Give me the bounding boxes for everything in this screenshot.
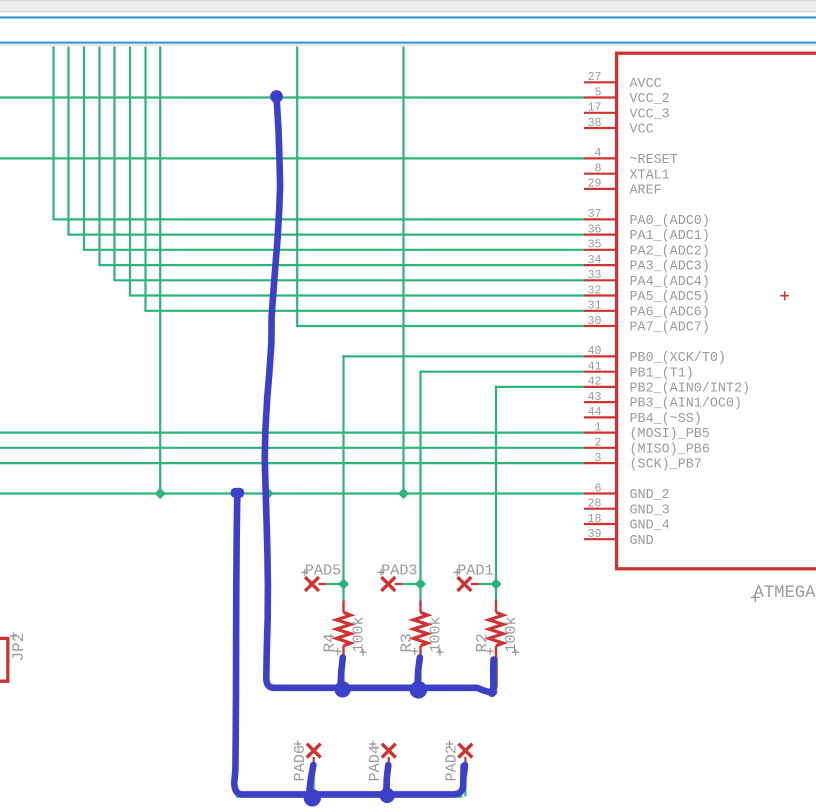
pin 38 VCC xyxy=(584,117,654,138)
node label ATMEGA16 xyxy=(751,584,816,603)
svg-text:2: 2 xyxy=(595,437,602,450)
wire net MOSI horizontal to pin 1 xyxy=(0,432,585,434)
pin 43 PB3_(AIN1/OC0) xyxy=(584,391,742,412)
pin 40 PB0_(XCK/T0) xyxy=(584,345,726,366)
pin 44 PB4_(~SS) xyxy=(584,406,702,427)
svg-text:100k: 100k xyxy=(503,616,520,652)
svg-text:PA1_(ADC1): PA1_(ADC1) xyxy=(630,229,710,244)
resistor R3 100k xyxy=(398,600,445,659)
wire net PB1 vertical to pad xyxy=(419,371,421,584)
svg-text:43: 43 xyxy=(588,391,602,404)
svg-text:3: 3 xyxy=(595,452,602,465)
node junction PAD5/R4 xyxy=(338,578,349,589)
pin 42 PB2_(AIN0/INT2) xyxy=(584,376,750,397)
pad PAD5 group xyxy=(301,562,343,591)
svg-text:17: 17 xyxy=(588,102,602,115)
svg-text:(SCK)_PB7: (SCK)_PB7 xyxy=(630,458,702,473)
node junction blue blob PAD6/rail xyxy=(304,789,321,806)
svg-text:GND_2: GND_2 xyxy=(630,488,670,503)
svg-text:34: 34 xyxy=(588,254,602,267)
wire net PA7 vertical xyxy=(296,47,298,327)
pin 3 (SCK)_PB7 xyxy=(584,452,702,473)
wire net PB2 vertical to pad xyxy=(495,386,497,584)
wire net PA6 vertical xyxy=(144,47,146,311)
pin 28 GND_3 xyxy=(584,498,670,519)
wire net stub into R4 top xyxy=(342,584,344,600)
wire blue stub resistor R4 bottom xyxy=(341,658,343,686)
svg-text:37: 37 xyxy=(588,208,602,221)
svg-text:29: 29 xyxy=(588,178,602,191)
wire blue thick from GND line down to bottom pad rail xyxy=(234,494,463,795)
svg-text:PAD2: PAD2 xyxy=(443,745,461,781)
svg-text:PB1_(T1): PB1_(T1) xyxy=(630,366,694,381)
svg-text:33: 33 xyxy=(588,269,602,282)
wire net PB2 horizontal to pin xyxy=(495,386,585,388)
pin 39 GND xyxy=(584,528,654,549)
wire blue stub pad PAD6 xyxy=(310,765,314,790)
node junction PAD3/R3 xyxy=(415,578,426,589)
resistor R2 100k xyxy=(473,600,520,694)
svg-text:PAD1: PAD1 xyxy=(457,562,493,580)
node junction blue blob R3/rail xyxy=(410,681,428,699)
svg-text:(MISO)_PB6: (MISO)_PB6 xyxy=(630,442,710,457)
pin 32 PA5_(ADC5) xyxy=(584,284,710,305)
wire net stub into R3 top xyxy=(419,584,421,600)
pin 31 PA6_(ADC6) xyxy=(584,300,710,321)
pin 36 PA1_(ADC1) xyxy=(584,223,710,244)
wire blue stub resistor R3 bottom xyxy=(418,658,420,685)
svg-text:PA4_(ADC4): PA4_(ADC4) xyxy=(630,275,710,290)
svg-text:32: 32 xyxy=(588,284,602,297)
wire green underlay under blue stub of R2 xyxy=(496,658,498,688)
wire net MISO horizontal to pin 2 xyxy=(0,447,585,449)
node junction blue blob PAD4/rail xyxy=(380,788,395,803)
wire top toolbar band xyxy=(0,0,816,11)
svg-text:PAD5: PAD5 xyxy=(305,562,341,580)
svg-text:38: 38 xyxy=(588,117,602,130)
pin 33 PA4_(ADC4) xyxy=(584,269,710,290)
svg-text:1: 1 xyxy=(595,421,602,434)
op-amp U1 ATMEGA16 chip body xyxy=(617,53,816,569)
svg-text:42: 42 xyxy=(588,376,602,389)
wire net PB1 horizontal to pin xyxy=(419,371,584,373)
svg-text:41: 41 xyxy=(588,361,602,374)
pad PAD4 group xyxy=(366,741,396,782)
svg-text:100k: 100k xyxy=(351,616,368,652)
pin 17 VCC_3 xyxy=(584,102,670,123)
svg-text:PB3_(AIN1/OC0): PB3_(AIN1/OC0) xyxy=(630,397,743,412)
wire frame line bottom xyxy=(0,42,816,44)
wire net GND vertical middle xyxy=(402,47,404,494)
wire net PA4 vertical xyxy=(113,47,115,281)
wire net PA1 horizontal to pin xyxy=(67,234,584,236)
svg-text:PAD3: PAD3 xyxy=(381,562,417,580)
node junction blue dot at VCC_2 line xyxy=(270,90,283,103)
svg-text:18: 18 xyxy=(588,513,602,526)
svg-text:PAD4: PAD4 xyxy=(366,745,384,781)
node junction blue blob R4/rail xyxy=(334,681,350,697)
connector JP2 xyxy=(0,632,28,681)
svg-text:(MOSI)_PB5: (MOSI)_PB5 xyxy=(630,427,710,442)
svg-text:PB4_(~SS): PB4_(~SS) xyxy=(630,412,702,427)
svg-text:30: 30 xyxy=(588,315,602,328)
svg-text:PA3_(ADC3): PA3_(ADC3) xyxy=(630,260,710,275)
wire net PA4 horizontal to pin xyxy=(113,279,584,281)
wire net GND horizontal to pin 6 xyxy=(0,492,585,494)
svg-text:~RESET: ~RESET xyxy=(630,153,678,168)
node junction blue blob at GND line xyxy=(231,488,245,498)
pin 27 AVCC xyxy=(584,71,662,92)
pin 41 PB1_(T1) xyxy=(584,361,694,382)
node junction blue knee at R2 xyxy=(488,688,497,697)
svg-text:PAD6: PAD6 xyxy=(291,745,309,781)
wire green underlay under blue wire left xyxy=(234,494,236,796)
wire net PA0 vertical xyxy=(52,47,54,220)
svg-text:VCC: VCC xyxy=(630,123,654,138)
pin 2 (MISO)_PB6 xyxy=(584,437,710,458)
wire net PA7 horizontal to pin 30 xyxy=(296,325,584,327)
wire net PA1 vertical xyxy=(67,47,69,235)
pin 30 PA7_(ADC7) xyxy=(584,315,710,336)
pad PAD2 group xyxy=(443,741,473,782)
pin 18 GND_4 xyxy=(584,513,670,534)
wire green underlay under blue stub of PAD6 xyxy=(313,766,315,797)
wire net PA5 vertical xyxy=(129,47,131,296)
svg-text:R4: R4 xyxy=(321,633,339,652)
wire net PB0 horizontal to pin xyxy=(342,355,584,357)
svg-text:XTAL1: XTAL1 xyxy=(630,168,670,183)
pad PAD3 group xyxy=(378,562,421,591)
node junction GND at left vertical xyxy=(155,488,166,499)
svg-text:R3: R3 xyxy=(398,633,416,652)
svg-text:6: 6 xyxy=(595,482,602,495)
wire green underlay under blue stub of PAD4 xyxy=(388,766,390,797)
node junction GND at blue wire crossing xyxy=(261,487,273,499)
svg-text:39: 39 xyxy=(588,528,602,541)
svg-text:PB2_(AIN0/INT2): PB2_(AIN0/INT2) xyxy=(630,382,751,397)
wire green underlay under blue wire middle xyxy=(266,620,268,687)
svg-text:36: 36 xyxy=(588,223,602,236)
wire net SCK horizontal to pin 3 xyxy=(0,462,585,464)
svg-text:PA2_(ADC2): PA2_(ADC2) xyxy=(630,244,710,259)
svg-text:28: 28 xyxy=(588,498,602,511)
svg-text:27: 27 xyxy=(588,71,602,84)
svg-text:GND_4: GND_4 xyxy=(630,519,670,534)
svg-text:4: 4 xyxy=(595,147,602,160)
svg-text:PA0_(ADC0): PA0_(ADC0) xyxy=(630,214,710,229)
wire green underlay under blue stub of PAD2 xyxy=(464,766,466,797)
node junction PAD1/R2 xyxy=(490,578,501,589)
pin 8 XTAL1 xyxy=(584,163,670,184)
svg-text:AVCC: AVCC xyxy=(630,77,662,92)
wire net PA2 horizontal to pin xyxy=(83,249,585,251)
node junction GND at middle vertical xyxy=(398,488,409,499)
wire frame line top xyxy=(0,16,816,18)
wire net VCC_2 horizontal to pin 5 xyxy=(0,96,585,98)
resistor R4 100k xyxy=(321,600,368,659)
wire blue thick from VCC_2 line down to resistor rail xyxy=(265,97,494,692)
pin 29 AREF xyxy=(584,178,662,199)
pin 4 ~RESET xyxy=(584,147,678,168)
svg-text:GND_3: GND_3 xyxy=(630,503,670,518)
svg-text:VCC_2: VCC_2 xyxy=(630,92,670,107)
svg-text:AREF: AREF xyxy=(630,184,662,199)
pin 1 (MOSI)_PB5 xyxy=(584,421,710,442)
svg-text:40: 40 xyxy=(588,345,602,358)
node chip origin cross xyxy=(780,291,789,300)
wire net PA3 horizontal to pin xyxy=(98,264,584,266)
wire green underlay under blue stub of R3 xyxy=(419,658,421,688)
wire blue stub pad PAD2 xyxy=(464,765,465,775)
svg-text:35: 35 xyxy=(588,239,602,252)
pin 6 GND_2 xyxy=(584,482,670,503)
svg-text:PA7_(ADC7): PA7_(ADC7) xyxy=(630,321,710,336)
pin 37 PA0_(ADC0) xyxy=(584,208,710,229)
wire blue stub pad PAD4 xyxy=(386,765,388,789)
wire net PA0 horizontal to pin xyxy=(52,218,584,220)
wire net GND vertical left xyxy=(159,47,161,494)
svg-text:8: 8 xyxy=(595,163,602,176)
svg-text:VCC_3: VCC_3 xyxy=(630,107,670,122)
svg-text:ATMEGA1: ATMEGA1 xyxy=(754,584,816,603)
pad PAD6 group xyxy=(291,741,321,782)
wire green underlay under blue bottom rail xyxy=(236,795,462,797)
svg-text:PA6_(ADC6): PA6_(ADC6) xyxy=(630,305,710,320)
wire net PA2 vertical xyxy=(83,47,85,250)
svg-text:R2: R2 xyxy=(473,633,491,652)
pin 35 PA2_(ADC2) xyxy=(584,239,710,260)
pin 5 VCC_2 xyxy=(584,86,670,107)
wire net PA5 horizontal to pin xyxy=(129,294,585,296)
svg-text:100k: 100k xyxy=(428,616,445,652)
wire net stub into R2 top xyxy=(495,584,497,600)
wire net ~RESET horizontal to pin 4 xyxy=(0,157,585,159)
pad PAD1 group xyxy=(454,562,496,591)
wire net PA3 vertical xyxy=(98,47,100,266)
svg-text:31: 31 xyxy=(588,300,602,313)
wire green underlay under blue stub of R4 xyxy=(342,658,344,688)
svg-text:PB0_(XCK/T0): PB0_(XCK/T0) xyxy=(630,351,726,366)
svg-text:44: 44 xyxy=(588,406,602,419)
pin 34 PA3_(ADC3) xyxy=(584,254,710,275)
svg-text:GND: GND xyxy=(630,534,654,549)
svg-text:PA5_(ADC5): PA5_(ADC5) xyxy=(630,290,710,305)
svg-text:5: 5 xyxy=(595,86,602,99)
wire net PB0 vertical to pad xyxy=(342,355,344,584)
wire net PA6 horizontal to pin xyxy=(144,310,584,312)
